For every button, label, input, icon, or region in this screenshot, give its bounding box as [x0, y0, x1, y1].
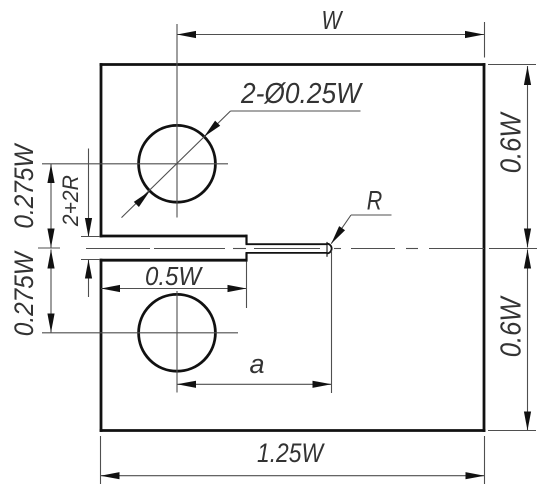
dimension 0.6W bottom arrow down	[524, 412, 531, 431]
dimension 1.25W arrow right	[466, 472, 485, 479]
dimension 1.25W arrow left	[101, 472, 120, 479]
dimension 0.275W bottom line	[50, 250, 52, 333]
slot tip radius arc	[327, 244, 332, 254]
dimension 0.5W arrow left	[101, 285, 120, 292]
svg-text:a: a	[249, 349, 264, 379]
slot top edge	[246, 243, 327, 245]
holes diameter leader diagonal	[122, 111, 231, 218]
notch wide top edge	[100, 235, 247, 238]
notch step lower	[245, 253, 247, 262]
specimen centerline dash-dot	[86, 248, 537, 250]
holes diameter arrow lower	[134, 188, 153, 207]
dimension 0.5W line	[101, 288, 247, 290]
hole bottom centerline vertical	[176, 291, 178, 393]
dimension 1.25W line	[101, 475, 485, 477]
dimension 0.6W bottom line	[527, 250, 529, 431]
svg-text:0.6W: 0.6W	[496, 111, 528, 173]
radius R leader diagonal	[331, 215, 351, 244]
specimen outline bottom edge	[100, 429, 486, 432]
slot tip tick	[326, 242, 328, 257]
dimension 0.6W bottom extension line	[488, 430, 536, 432]
slot bottom edge	[246, 252, 327, 254]
dimension 0.275W top arrow down	[47, 229, 54, 248]
dimension 0.275W bottom arrow down	[47, 314, 54, 333]
dimension 1.25W extension line right	[484, 436, 486, 484]
dimension W arrow left	[177, 31, 196, 38]
dimension 0.6W top line	[527, 66, 529, 248]
dimension a arrow right	[313, 381, 332, 388]
specimen outline left edge upper	[100, 63, 103, 237]
svg-text:0.275W: 0.275W	[9, 142, 39, 228]
dimension W line	[177, 34, 484, 36]
radius R arrow	[328, 226, 345, 246]
dimension 0.6W top extension line	[488, 64, 536, 66]
specimen outline right edge	[483, 63, 486, 432]
dimension 0.6W bottom arrow up	[524, 250, 531, 269]
svg-text:0.5W: 0.5W	[145, 261, 203, 291]
dimension 0.5W extension line	[246, 262, 248, 309]
dimension 1.25W extension line left	[100, 436, 102, 484]
notch wide bottom edge	[100, 259, 247, 262]
centerline extension left	[38, 247, 60, 249]
svg-text:R: R	[367, 186, 383, 216]
hole bottom centerline horizontal	[42, 332, 238, 334]
svg-text:2+2R: 2+2R	[58, 175, 83, 227]
svg-text:1.25W: 1.25W	[257, 438, 325, 468]
radius R leader horizontal	[351, 214, 392, 216]
hole top centerline vertical	[176, 24, 178, 218]
dimension 0.275W top line	[50, 164, 52, 248]
specimen outline left edge lower	[100, 259, 103, 432]
dimension a line	[177, 383, 332, 385]
notch step upper	[245, 235, 247, 245]
dimension a arrow left	[177, 381, 196, 388]
dimension 2+2R upper line	[88, 149, 90, 238]
hole bottom circle	[139, 294, 216, 371]
dimension W extension line right	[484, 22, 486, 58]
dimension 2+2R extension line lower	[81, 259, 100, 261]
holes diameter arrow upper	[202, 121, 221, 140]
dimension 0.275W bottom arrow up	[47, 250, 54, 269]
dimension 0.6W top arrow up	[524, 66, 531, 85]
dimension 2+2R extension line upper	[81, 236, 100, 238]
dimension 2+2R lower line	[88, 260, 90, 298]
holes diameter leader underline	[231, 110, 361, 112]
hole top centerline horizontal	[42, 163, 228, 165]
svg-text:2-Ø0.25W: 2-Ø0.25W	[240, 78, 363, 110]
dimension 0.275W top arrow up	[47, 164, 54, 183]
dimension W arrow right	[465, 31, 484, 38]
svg-text:0.275W: 0.275W	[9, 250, 39, 336]
hole top circle	[139, 125, 216, 202]
dimension 0.6W top arrow down	[524, 229, 531, 248]
dimension 0.5W arrow right	[228, 285, 247, 292]
svg-text:0.6W: 0.6W	[496, 295, 528, 357]
svg-text:W: W	[322, 5, 344, 35]
dimension a extension line	[331, 251, 333, 394]
dimension 2+2R arrow down	[85, 218, 92, 237]
dimension 2+2R arrow up	[85, 260, 92, 279]
specimen outline top edge	[100, 63, 486, 66]
